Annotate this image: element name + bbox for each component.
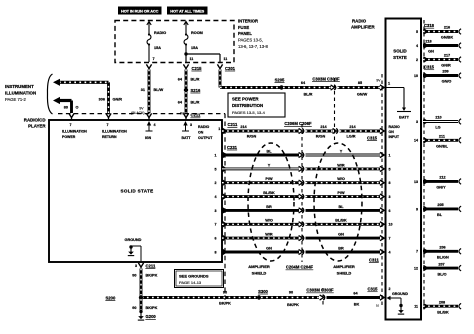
svg-text:14: 14 <box>414 139 418 143</box>
svg-text:SHIELD: SHIELD <box>252 270 267 275</box>
svg-text:212: 212 <box>439 176 445 180</box>
svg-text:DISTRIBUTION: DISTRIBUTION <box>232 103 263 108</box>
amplifier shield left (dashed ellipse) <box>248 143 294 261</box>
svg-text:BL/GN: BL/GN <box>437 256 449 260</box>
svg-text:C215: C215 <box>192 66 203 71</box>
radio pin 7 ILLUMINATION RETURN <box>102 123 127 139</box>
svg-text:4: 4 <box>154 123 156 127</box>
svg-text:PAGE 71-2: PAGE 71-2 <box>5 97 27 102</box>
svg-text:RADIO: RADIO <box>352 18 367 23</box>
svg-text:214: 214 <box>320 125 327 129</box>
connector C318 label <box>424 23 435 28</box>
svg-text:C303M C303F: C303M C303F <box>306 288 334 293</box>
svg-text:SOLID STATE: SOLID STATE <box>121 189 154 194</box>
svg-text:HOT AT ALL TIMES: HOT AT ALL TIMES <box>170 9 204 14</box>
svg-text:C303M C303F: C303M C303F <box>312 76 340 81</box>
svg-text:LG: LG <box>435 126 440 130</box>
splice S205 <box>275 77 285 89</box>
svg-text:80: 80 <box>64 106 68 110</box>
svg-text:7: 7 <box>70 123 72 127</box>
svg-text:C315: C315 <box>368 287 379 292</box>
svg-text:FUSE: FUSE <box>238 25 249 30</box>
svg-text:SEE GROUNDS: SEE GROUNDS <box>179 273 209 278</box>
wire 90 BK/PK radio to S200 <box>132 269 157 297</box>
wire 214 LG/R segment 3 <box>340 125 381 139</box>
radio pin 4 IGN <box>145 121 156 140</box>
svg-text:2: 2 <box>416 58 418 62</box>
wire 57 BK from C303 to amplifier ground <box>327 292 381 307</box>
radio pin 3 ground output connector C211 <box>135 263 156 269</box>
svg-text:2: 2 <box>389 287 391 291</box>
svg-text:10: 10 <box>389 223 393 227</box>
svg-text:POWER: POWER <box>62 135 76 139</box>
label RADIO AMPLIFIER <box>351 18 375 29</box>
connector C211 at illumination return pin <box>106 113 111 119</box>
connector at fuse 7 output <box>146 64 151 70</box>
svg-text:3: 3 <box>215 209 217 213</box>
connector C204 dashed boundary line <box>301 124 303 262</box>
svg-text:W/O: W/O <box>265 219 273 223</box>
svg-text:PAGES 13-5,: PAGES 13-5, <box>238 38 263 43</box>
svg-text:AMPLIFIER: AMPLIFIER <box>333 264 355 269</box>
svg-text:RADIO: RADIO <box>389 125 401 129</box>
svg-text:ILLUMINATION: ILLUMINATION <box>5 90 36 95</box>
amplifier output wire 209 GN/O pin 10 <box>414 70 461 84</box>
svg-text:5: 5 <box>389 167 391 171</box>
svg-text:BL/BK: BL/BK <box>335 219 347 223</box>
svg-text:211: 211 <box>439 135 445 139</box>
connector C315 at amplifier pin 1 <box>380 85 384 90</box>
audio wire 8 (GN/BR) <box>215 246 391 254</box>
svg-text:3: 3 <box>190 123 192 127</box>
connector C303M C303F on ground wire <box>306 288 334 301</box>
svg-text:Y: Y <box>340 149 343 153</box>
amplifier shield left label <box>248 264 270 275</box>
svg-text:GN: GN <box>266 246 272 250</box>
connector C315 label right side <box>424 65 435 70</box>
svg-text:LG/R: LG/R <box>346 135 355 139</box>
svg-text:PAGES 13-5, 13-4: PAGES 13-5, 13-4 <box>232 110 266 115</box>
svg-text:7: 7 <box>389 237 391 241</box>
svg-text:S200: S200 <box>106 295 116 300</box>
svg-text:AMPLIFIER: AMPLIFIER <box>351 25 375 30</box>
svg-text:3: 3 <box>135 264 137 268</box>
wire 64 BL/R from C201 to S205 <box>220 70 282 88</box>
svg-text:306: 306 <box>99 97 105 101</box>
svg-text:C204M C204F: C204M C204F <box>286 265 314 270</box>
connector C315 at amplifier ground pin <box>368 287 385 308</box>
svg-text:8: 8 <box>389 181 391 185</box>
svg-text:9V: 9V <box>376 79 381 83</box>
svg-text:INPUT: INPUT <box>389 135 400 139</box>
svg-text:BL/W: BL/W <box>154 88 164 92</box>
amplifier shield right (dashed ellipse) <box>314 143 362 261</box>
svg-text:12: 12 <box>414 267 418 271</box>
svg-text:BK/PK: BK/PK <box>146 274 158 278</box>
svg-text:216: 216 <box>444 26 450 30</box>
inline connector on wire 214 <box>333 128 338 133</box>
audio wire 3 (P/W/W/O) <box>215 177 391 185</box>
svg-text:15A: 15A <box>191 46 198 50</box>
interior fuse panel label <box>238 19 268 50</box>
svg-text:7: 7 <box>215 223 217 227</box>
radio pin 1 RADIO ON OUTPUT <box>198 125 220 140</box>
svg-text:PAGE 14-13: PAGE 14-13 <box>179 280 202 285</box>
wire 85 GN/W from C303 to amplifier pin 1 <box>338 79 382 97</box>
svg-text:BL/R: BL/R <box>191 78 200 82</box>
svg-text:S205: S205 <box>275 77 285 82</box>
svg-text:W/R: W/R <box>265 233 273 237</box>
wire 64 BL/R lower segment <box>178 92 200 113</box>
svg-text:W/R: W/R <box>337 163 345 167</box>
svg-text:STATE: STATE <box>393 55 407 60</box>
svg-text:BK/PK: BK/PK <box>219 302 231 306</box>
fuse RADIO 15A <box>147 22 166 63</box>
svg-text:P/W: P/W <box>337 191 345 195</box>
svg-text:1: 1 <box>218 127 220 131</box>
svg-text:O: O <box>76 106 79 110</box>
svg-text:INTERIOR: INTERIOR <box>238 19 258 24</box>
svg-text:R/GN: R/GN <box>316 135 326 139</box>
svg-text:214: 214 <box>349 125 356 129</box>
svg-text:R/GN: R/GN <box>247 135 257 139</box>
voltage note 9V at BATT <box>180 112 185 116</box>
svg-text:10: 10 <box>376 304 380 308</box>
svg-text:1: 1 <box>215 153 217 157</box>
svg-text:ON: ON <box>198 130 204 134</box>
wire 80 O illumination power arrow <box>53 97 79 113</box>
connector C311 label <box>369 257 379 262</box>
svg-text:IGN: IGN <box>145 136 152 140</box>
wire 64 BL/R upper segment <box>178 70 200 89</box>
svg-text:15A: 15A <box>154 46 161 50</box>
svg-text:4: 4 <box>416 44 418 48</box>
svg-text:GROUND: GROUND <box>125 238 142 242</box>
svg-text:214: 214 <box>240 125 247 129</box>
svg-text:90: 90 <box>289 290 293 294</box>
audio wire 2 (Y/W/R) <box>215 163 391 171</box>
svg-text:3: 3 <box>389 195 391 199</box>
svg-text:RADIO: RADIO <box>198 125 210 129</box>
svg-text:SHIELD: SHIELD <box>337 270 352 275</box>
svg-text:205: 205 <box>437 203 443 207</box>
svg-text:W/O: W/O <box>337 177 345 181</box>
svg-text:10: 10 <box>414 74 418 78</box>
radio pin 3 BATT <box>181 121 192 140</box>
svg-text:6: 6 <box>215 237 217 241</box>
amplifier output wire 211 GN/BL pin 14 <box>414 135 461 149</box>
junction dot below ROOM fuse <box>184 52 187 55</box>
svg-text:HOT IN RUN OR ACC: HOT IN RUN OR ACC <box>121 9 159 14</box>
radio/CD player box U1 <box>49 120 222 262</box>
svg-text:207: 207 <box>438 262 444 266</box>
svg-text:GN/O: GN/O <box>442 80 452 84</box>
note box SEE GROUNDS <box>175 270 224 288</box>
svg-text:PLAYER: PLAYER <box>28 124 46 129</box>
svg-text:3: 3 <box>416 120 418 124</box>
power label HOT AT ALL TIMES <box>167 7 208 15</box>
svg-text:BL: BL <box>338 205 344 209</box>
svg-text:11: 11 <box>414 305 418 309</box>
svg-text:OUTPUT: OUTPUT <box>198 136 213 140</box>
svg-text:BATT: BATT <box>399 116 410 120</box>
wire 214 R/GN segment 1 <box>222 125 299 139</box>
amplifier shield right label <box>333 264 355 275</box>
svg-text:GN/R: GN/R <box>441 64 451 68</box>
amplifier output wire 205 BL pin 9 <box>416 203 461 217</box>
wire 90 BK/PK S200 to S300 <box>143 290 257 305</box>
svg-text:11: 11 <box>224 57 228 61</box>
svg-text:209: 209 <box>442 70 448 74</box>
wire 64 BL/R from S205 to C303 <box>283 81 331 97</box>
svg-text:4: 4 <box>389 250 391 254</box>
svg-text:BR: BR <box>266 205 272 209</box>
voltage note 9V (BLACK) <box>131 106 144 115</box>
svg-text:31: 31 <box>141 88 145 92</box>
svg-text:208: 208 <box>439 300 445 304</box>
svg-text:8: 8 <box>215 250 217 254</box>
svg-text:RETURN: RETURN <box>102 135 117 139</box>
svg-text:6: 6 <box>389 209 391 213</box>
svg-text:1: 1 <box>389 153 391 157</box>
svg-text:210: 210 <box>435 116 441 120</box>
bracket for instrument illumination <box>47 74 52 114</box>
radio internal ground <box>125 238 142 261</box>
svg-text:SOLID: SOLID <box>393 49 406 54</box>
svg-text:BATT: BATT <box>181 136 191 140</box>
audio wire 1 (BL/Y) <box>215 149 391 157</box>
fuse ROOM 15A <box>184 22 203 55</box>
svg-text:1: 1 <box>388 82 390 86</box>
amplifier output wire 206 BL/GN pin 7 <box>416 246 461 260</box>
svg-text:5: 5 <box>215 167 217 171</box>
svg-text:C318: C318 <box>424 23 435 28</box>
svg-text:13: 13 <box>414 180 418 184</box>
svg-text:GN/W: GN/W <box>357 93 368 97</box>
svg-text:BK/PK: BK/PK <box>146 306 158 310</box>
connector C211 at IGN pin <box>146 113 151 119</box>
amplifier output wire 218 GN pin 4 <box>416 40 461 54</box>
splice S200 <box>106 295 144 300</box>
wire 31 BL/W from radio fuse to IGN <box>141 70 164 114</box>
svg-text:13-6, 13-7, 13-8: 13-6, 13-7, 13-8 <box>238 44 268 49</box>
svg-text:218: 218 <box>425 40 431 44</box>
svg-text:S300: S300 <box>258 289 268 294</box>
svg-text:BL/O: BL/O <box>437 272 446 276</box>
connector C303M C303F on battery wire <box>312 76 340 90</box>
connector C303 dashed boundary line top <box>334 78 336 140</box>
svg-text:BL/BK: BL/BK <box>437 310 449 314</box>
amplifier output wire 207 BL/O pin 12 <box>414 262 461 276</box>
svg-text:217: 217 <box>444 54 450 58</box>
svg-text:GN/R: GN/R <box>113 97 123 101</box>
audio wire 7 (W/R/GN) <box>215 233 391 241</box>
interior fuse panel box (dashed) <box>115 21 234 63</box>
svg-text:85: 85 <box>358 81 362 85</box>
connector C204M C204F label <box>286 265 314 270</box>
svg-text:90: 90 <box>132 274 136 278</box>
audio wire 6 (W/O/BL/BK) <box>215 219 393 227</box>
svg-text:GN/Y: GN/Y <box>436 186 446 190</box>
svg-text:BK: BK <box>354 302 360 306</box>
amplifier output connector dashed boundary line <box>423 20 425 312</box>
svg-text:C211: C211 <box>146 263 156 268</box>
svg-text:C201: C201 <box>225 66 236 71</box>
svg-text:PANEL: PANEL <box>238 31 252 36</box>
svg-text:C211: C211 <box>228 122 238 127</box>
svg-text:ILLUMINATION: ILLUMINATION <box>62 129 87 133</box>
svg-text:INSTRUMENT: INSTRUMENT <box>5 84 34 89</box>
svg-text:BR: BR <box>338 246 344 250</box>
svg-text:GN/BL: GN/BL <box>436 145 448 149</box>
svg-text:GN/BK: GN/BK <box>441 36 453 40</box>
ground G200 <box>138 310 157 320</box>
connector C206M C206F <box>284 121 312 133</box>
svg-text:RADIO: RADIO <box>154 31 166 35</box>
svg-text:AMPLIFIER: AMPLIFIER <box>248 264 270 269</box>
wire 90 BK/PK S300 to C303 <box>261 290 319 306</box>
label RADIO/CD PLAYER <box>24 118 47 129</box>
svg-text:4: 4 <box>215 195 217 199</box>
svg-text:P/W: P/W <box>265 177 273 181</box>
audio wire 5 (BR/BL) <box>215 205 391 213</box>
svg-text:C231: C231 <box>227 145 238 150</box>
svg-text:SEE POWER: SEE POWER <box>232 97 259 102</box>
wire 90 BK/PK S200 to G200 <box>132 299 157 310</box>
radio amplifier box U2 <box>386 19 422 320</box>
svg-text:7: 7 <box>153 57 155 61</box>
wire 306 GN/R illumination return arrow <box>53 79 122 113</box>
power label HOT IN RUN OR ACC <box>118 7 162 15</box>
svg-text:BL: BL <box>266 149 272 153</box>
svg-text:BL/R: BL/R <box>304 93 313 97</box>
svg-text:(BLACK): (BLACK) <box>131 111 144 115</box>
svg-text:C315: C315 <box>367 135 378 140</box>
amplifier internal ground <box>387 287 409 314</box>
svg-text:C206M C206F: C206M C206F <box>284 121 312 126</box>
note box SEE POWER DISTRIBUTION <box>228 93 285 117</box>
amplifier output wire 216 GN/BK pin 5 <box>416 26 461 40</box>
svg-text:7: 7 <box>107 123 109 127</box>
svg-text:90: 90 <box>132 306 136 310</box>
svg-text:ON: ON <box>389 130 395 134</box>
svg-text:C315: C315 <box>424 65 435 70</box>
audio wire 4 (BL/BK/P/W) <box>215 191 391 199</box>
svg-text:BL: BL <box>437 213 443 217</box>
svg-text:ILLUMINATION: ILLUMINATION <box>102 129 127 133</box>
wire jog from ROOM fuse to pin 11 <box>186 54 227 62</box>
svg-text:9V: 9V <box>139 106 144 110</box>
connector C211 dashed boundary line <box>58 114 225 300</box>
svg-text:11: 11 <box>190 57 194 61</box>
svg-text:GROUND: GROUND <box>392 292 408 296</box>
svg-text:9: 9 <box>416 207 418 211</box>
connector C311/C315/C318 dashed boundary line <box>381 74 383 307</box>
svg-text:RADIO/CD: RADIO/CD <box>24 118 46 123</box>
svg-text:ROOM: ROOM <box>191 31 203 35</box>
splice S216 <box>184 88 201 93</box>
amplifier pin 1 BATT probe <box>386 82 411 120</box>
svg-text:Y: Y <box>268 163 271 167</box>
svg-text:GN: GN <box>338 233 344 237</box>
connector C211 on radio-on wire <box>222 122 238 133</box>
svg-text:GN: GN <box>428 50 434 54</box>
svg-text:BK/PK: BK/PK <box>287 303 299 307</box>
svg-text:5: 5 <box>416 30 418 34</box>
connector C303 dashed boundary line bottom <box>322 288 324 307</box>
connector C201 <box>217 64 235 70</box>
svg-text:BL/R: BL/R <box>191 100 200 104</box>
splice S300 <box>257 289 269 300</box>
amplifier output wire 212 GN/Y pin 13 <box>414 176 461 190</box>
label SOLID STATE inside radio <box>121 189 154 194</box>
svg-text:G200: G200 <box>146 314 157 319</box>
svg-text:C311: C311 <box>369 257 379 262</box>
wire 214 R/GN segment 2 <box>306 125 334 139</box>
connector C231 label <box>227 145 238 150</box>
radio pin 7 ILLUMINATION POWER <box>62 123 87 139</box>
svg-text:7: 7 <box>416 250 418 254</box>
connector C211 at illumination power pin <box>69 113 74 119</box>
svg-text:S216: S216 <box>191 88 201 93</box>
label SOLID STATE inside amplifier <box>393 49 407 60</box>
connector C211 at BATT pin <box>183 113 201 120</box>
svg-text:BL/BK: BL/BK <box>263 191 275 195</box>
label INSTRUMENT ILLUMINATION PAGE 71-2 <box>5 84 36 102</box>
svg-text:90: 90 <box>223 290 227 294</box>
svg-text:2: 2 <box>215 181 217 185</box>
svg-text:206: 206 <box>439 246 445 250</box>
connector C315 on wire 214 <box>367 128 384 140</box>
connector C215 <box>183 64 202 70</box>
amplifier output wire 217 GN/R pin 2 <box>416 54 461 68</box>
amplifier pin 3 RADIO ON INPUT <box>389 125 401 139</box>
amplifier output wire 208 BL/BK pin 11 <box>414 300 461 314</box>
amplifier output wire 210 LG pin 3 <box>416 116 461 130</box>
